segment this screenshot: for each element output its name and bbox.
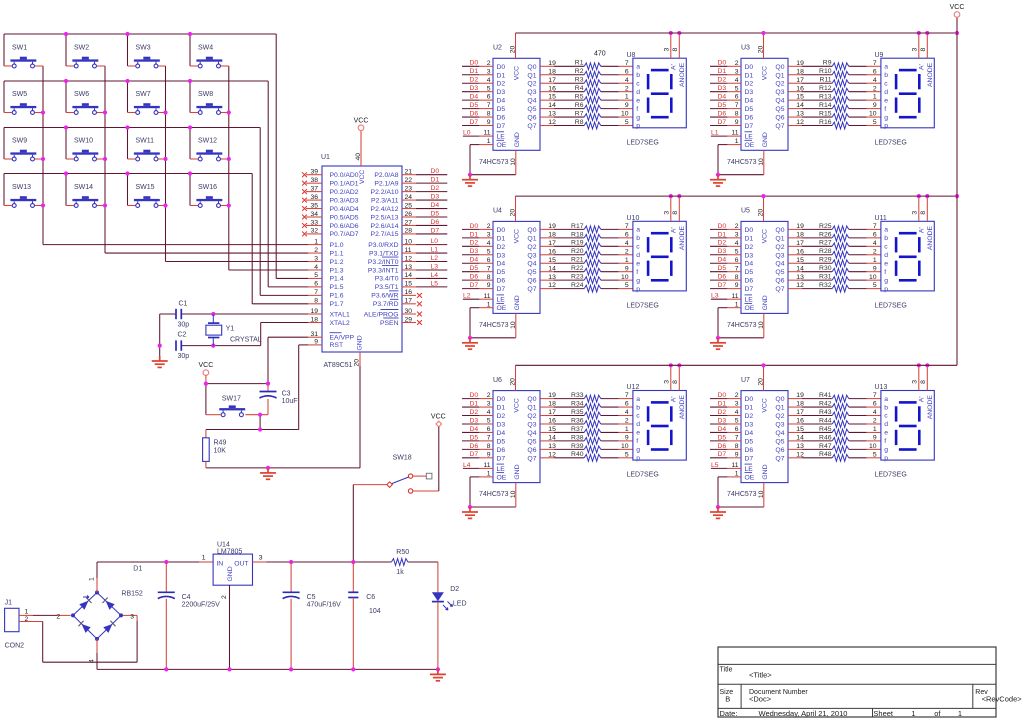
svg-text:32: 32	[310, 228, 318, 235]
svg-text:R43: R43	[819, 409, 832, 416]
svg-text:3: 3	[735, 68, 739, 75]
wire bridge minus to ground rail	[96, 639, 98, 670]
resistor R8	[540, 119, 633, 129]
svg-text:2: 2	[735, 392, 739, 399]
svg-text:c: c	[636, 244, 640, 251]
svg-text:e: e	[636, 430, 640, 437]
svg-text:Q7: Q7	[527, 123, 536, 130]
svg-text:C6: C6	[366, 594, 375, 601]
ground symbol below R49 rail	[260, 468, 276, 479]
svg-text:3: 3	[912, 48, 919, 52]
svg-text:P0.3/AD3: P0.3/AD3	[330, 197, 359, 204]
svg-text:D3: D3	[718, 248, 727, 255]
wire SW17 pins net	[206, 399, 268, 430]
svg-text:5: 5	[625, 119, 629, 126]
svg-text:D2: D2	[718, 77, 727, 84]
svg-text:2: 2	[735, 223, 739, 230]
svg-text:15: 15	[796, 426, 804, 433]
svg-text:g: g	[884, 114, 888, 121]
svg-text:Q6: Q6	[527, 447, 536, 454]
pushbutton SW9	[10, 138, 36, 161]
svg-text:C1: C1	[179, 301, 188, 308]
svg-text:R11: R11	[820, 77, 832, 84]
svg-text:39: 39	[310, 169, 318, 176]
svg-text:D4: D4	[470, 426, 479, 433]
svg-text:Q5: Q5	[527, 106, 536, 113]
svg-text:U12: U12	[627, 384, 640, 391]
svg-text:p: p	[884, 123, 888, 130]
svg-text:P1.0: P1.0	[330, 242, 344, 249]
svg-text:17: 17	[548, 409, 556, 416]
svg-text:<Title>: <Title>	[749, 670, 772, 679]
wire OE of U7 to ground	[716, 471, 764, 510]
svg-text:e: e	[884, 260, 888, 267]
svg-text:Q0: Q0	[527, 396, 536, 403]
svg-text:VCC: VCC	[514, 398, 521, 412]
ground symbol below U4	[462, 338, 478, 349]
title block frame	[718, 647, 996, 717]
svg-text:10: 10	[621, 111, 629, 118]
svg-text:R30: R30	[819, 265, 832, 272]
svg-text:Q6: Q6	[527, 278, 536, 285]
resistor network value 470	[594, 51, 606, 58]
svg-text:2: 2	[221, 595, 228, 599]
resistor R24	[540, 282, 633, 292]
svg-text:18: 18	[796, 68, 804, 75]
diode bridge D1 RB152	[56, 566, 143, 664]
svg-text:11: 11	[405, 247, 412, 254]
ground symbol power supply	[430, 669, 446, 680]
svg-text:U6: U6	[493, 377, 502, 384]
svg-text:D0: D0	[718, 60, 727, 67]
svg-text:19: 19	[548, 392, 556, 399]
svg-text:1: 1	[625, 426, 629, 433]
svg-text:5: 5	[487, 418, 491, 425]
wire VCC main vertical right side	[956, 17, 958, 365]
wire U14 GND pin2 to ground rail	[229, 585, 231, 669]
svg-text:27: 27	[405, 219, 413, 226]
svg-text:Q5: Q5	[775, 106, 784, 113]
pushbutton SW8	[196, 91, 222, 114]
svg-text:Q2: Q2	[775, 81, 784, 88]
svg-text:L0: L0	[463, 130, 471, 137]
pushbutton SW2	[72, 45, 98, 68]
pushbutton SW5	[10, 91, 36, 114]
svg-text:SW10: SW10	[74, 138, 93, 145]
svg-text:SW6: SW6	[74, 91, 89, 98]
wire U9 anode pins 3 8 to VCC rail	[912, 31, 930, 58]
svg-text:c: c	[884, 244, 888, 251]
7-segment display U13 LED7SEG	[875, 384, 935, 479]
svg-text:R21: R21	[571, 257, 584, 264]
svg-text:4: 4	[487, 77, 491, 84]
svg-text:P0.2/AD2: P0.2/AD2	[330, 189, 359, 196]
svg-text:8: 8	[920, 380, 927, 384]
svg-text:g: g	[636, 447, 640, 454]
svg-text:b: b	[884, 404, 888, 411]
svg-text:P2.2/A10: P2.2/A10	[371, 189, 399, 196]
svg-text:8: 8	[672, 380, 679, 384]
svg-text:1: 1	[625, 257, 629, 264]
resistor R21	[540, 257, 633, 267]
resistor R10	[788, 68, 881, 78]
resistor R36	[540, 417, 633, 427]
svg-text:R22: R22	[571, 265, 584, 272]
svg-text:R20: R20	[571, 248, 584, 255]
svg-text:VCC: VCC	[354, 117, 369, 124]
svg-text:D3: D3	[470, 248, 479, 255]
capacitor C2 30p	[176, 332, 189, 361]
svg-text:D3: D3	[745, 252, 754, 259]
svg-text:LE: LE	[745, 297, 754, 304]
svg-text:10: 10	[869, 443, 877, 450]
svg-text:R29: R29	[819, 257, 832, 264]
svg-text:Q0: Q0	[527, 64, 536, 71]
svg-text:Q1: Q1	[527, 235, 536, 242]
svg-text:74HC573: 74HC573	[727, 491, 757, 498]
resistor R23	[540, 274, 633, 284]
svg-text:SW12: SW12	[198, 138, 217, 145]
svg-text:D7: D7	[718, 451, 727, 458]
svg-text:D5: D5	[745, 438, 754, 445]
svg-text:2: 2	[56, 614, 60, 621]
wire LE input of U4 label L2	[463, 293, 493, 300]
svg-text:LED7SEG: LED7SEG	[875, 302, 907, 309]
svg-text:AT89C51: AT89C51	[324, 362, 353, 369]
svg-text:OE: OE	[745, 474, 755, 481]
pushbutton SW3	[134, 45, 160, 68]
svg-text:D2: D2	[745, 81, 754, 88]
svg-text:LE: LE	[497, 134, 506, 141]
svg-text:R24: R24	[571, 282, 584, 289]
resistor R11	[788, 77, 881, 87]
resistor R26	[788, 231, 881, 241]
svg-text:L2: L2	[463, 293, 471, 300]
svg-text:P1.7: P1.7	[330, 301, 344, 308]
svg-text:19: 19	[548, 60, 556, 67]
svg-text:GND: GND	[762, 295, 769, 310]
svg-text:4: 4	[735, 409, 739, 416]
svg-text:D7: D7	[497, 286, 506, 293]
svg-text:D5: D5	[718, 102, 727, 109]
resistor R4	[540, 85, 633, 95]
no-connect X marks on U1 P3.6 P3.7 ALE PSEN	[417, 293, 422, 325]
wire D0-D7 input wires of U3 with labels	[710, 60, 741, 126]
svg-text:12: 12	[548, 282, 556, 289]
pushbutton SW6	[72, 91, 98, 114]
svg-text:b: b	[636, 72, 640, 79]
svg-text:Q4: Q4	[527, 98, 536, 105]
svg-text:D1: D1	[718, 231, 727, 238]
svg-text:D0: D0	[497, 227, 506, 234]
svg-text:1: 1	[873, 94, 877, 101]
svg-text:13: 13	[548, 274, 556, 281]
resistor R20	[540, 248, 633, 258]
svg-text:15: 15	[548, 426, 556, 433]
svg-text:OE: OE	[497, 474, 507, 481]
svg-text:6: 6	[625, 68, 629, 75]
svg-text:D1: D1	[497, 405, 506, 412]
svg-text:Q3: Q3	[527, 89, 536, 96]
svg-text:D7: D7	[718, 282, 727, 289]
svg-text:D3: D3	[745, 421, 754, 428]
ground symbol below U2	[462, 175, 478, 186]
svg-text:R36: R36	[571, 417, 584, 424]
svg-text:g: g	[884, 277, 888, 284]
svg-text:2: 2	[25, 616, 29, 623]
svg-text:Q1: Q1	[775, 405, 784, 412]
svg-text:Q3: Q3	[775, 252, 784, 259]
svg-text:3: 3	[314, 255, 318, 262]
svg-text:P3.2/INT0: P3.2/INT0	[368, 259, 399, 266]
svg-text:4: 4	[625, 240, 629, 247]
svg-text:D1: D1	[718, 68, 727, 75]
svg-text:26: 26	[405, 211, 413, 218]
svg-text:VCC: VCC	[359, 170, 366, 184]
svg-text:Q2: Q2	[775, 413, 784, 420]
wire J1 pin1 to bridge AC left	[19, 614, 71, 616]
svg-text:g: g	[636, 277, 640, 284]
svg-text:Q0: Q0	[527, 227, 536, 234]
svg-text:R47: R47	[819, 443, 832, 450]
svg-text:1: 1	[735, 301, 739, 308]
7-segment display U11 LED7SEG	[875, 215, 935, 310]
svg-text:14: 14	[405, 272, 413, 279]
svg-text:ALE/PROG: ALE/PROG	[364, 311, 399, 318]
svg-text:19: 19	[310, 308, 318, 315]
wire SW18 common to 7805 OUT rail	[353, 485, 387, 562]
svg-text:74HC573: 74HC573	[479, 322, 509, 329]
svg-text:D3: D3	[431, 194, 440, 201]
svg-text:10: 10	[869, 274, 877, 281]
svg-text:21: 21	[405, 169, 413, 176]
svg-text:VCC: VCC	[762, 229, 769, 243]
svg-text:6: 6	[735, 94, 739, 101]
svg-text:Wednesday, April 21, 2010: Wednesday, April 21, 2010	[759, 709, 848, 718]
svg-text:R35: R35	[571, 409, 584, 416]
svg-text:14: 14	[796, 102, 804, 109]
7-segment display U8 LED7SEG	[627, 52, 687, 147]
svg-text:17: 17	[548, 77, 556, 84]
svg-text:23: 23	[405, 185, 413, 192]
svg-text:P3.4/T0: P3.4/T0	[375, 276, 399, 283]
svg-text:1: 1	[89, 577, 96, 581]
svg-text:18: 18	[796, 401, 804, 408]
svg-text:3: 3	[664, 380, 671, 384]
resistor R27	[788, 240, 881, 250]
svg-text:8: 8	[314, 298, 318, 305]
svg-text:15: 15	[796, 257, 804, 264]
svg-text:Q1: Q1	[775, 235, 784, 242]
svg-text:P2.1/A9: P2.1/A9	[374, 180, 398, 187]
svg-text:XTAL1: XTAL1	[330, 311, 350, 318]
svg-text:P3.6/WR: P3.6/WR	[371, 293, 398, 300]
svg-text:D2: D2	[470, 240, 479, 247]
svg-text:8: 8	[920, 48, 927, 52]
svg-text:p: p	[884, 455, 888, 462]
wire D0-D7 input wires of U5 with labels	[710, 223, 741, 289]
svg-text:19: 19	[548, 223, 556, 230]
svg-text:e: e	[884, 97, 888, 104]
svg-text:VCC: VCC	[514, 66, 521, 80]
svg-text:Q2: Q2	[775, 244, 784, 251]
wire U8 anode pins 3 8 to VCC rail	[664, 31, 682, 58]
pushbutton SW14	[72, 184, 98, 207]
power symbol VCC above U1	[354, 117, 369, 130]
svg-text:GND: GND	[762, 132, 769, 147]
svg-text:C3: C3	[282, 390, 291, 397]
svg-text:b: b	[884, 235, 888, 242]
svg-text:2: 2	[314, 247, 318, 254]
svg-text:5: 5	[735, 418, 739, 425]
svg-text:D6: D6	[745, 115, 754, 122]
resistor R28	[788, 248, 881, 258]
svg-text:D1: D1	[133, 566, 142, 573]
svg-text:L1: L1	[431, 247, 439, 254]
svg-text:9: 9	[314, 339, 318, 346]
svg-text:R34: R34	[571, 400, 584, 407]
svg-text:U11: U11	[875, 215, 887, 222]
resistor R1	[540, 60, 633, 70]
svg-text:R31: R31	[819, 274, 832, 281]
svg-text:3: 3	[912, 211, 919, 215]
svg-text:ANODE: ANODE	[927, 225, 934, 250]
svg-text:4: 4	[487, 409, 491, 416]
svg-text:8: 8	[735, 443, 739, 450]
svg-text:D3: D3	[718, 85, 727, 92]
svg-text:18: 18	[548, 401, 556, 408]
svg-text:9: 9	[625, 102, 629, 109]
svg-text:R13: R13	[819, 94, 832, 101]
svg-text:D5: D5	[718, 265, 727, 272]
svg-text:ANODE: ANODE	[679, 395, 686, 420]
svg-text:Q5: Q5	[775, 269, 784, 276]
svg-text:18: 18	[548, 231, 556, 238]
LED D2	[432, 586, 467, 610]
svg-text:U10: U10	[627, 215, 640, 222]
svg-text:SW1: SW1	[12, 45, 27, 52]
svg-text:12: 12	[548, 119, 556, 126]
svg-text:19: 19	[796, 392, 804, 399]
resistor R29	[788, 257, 881, 267]
svg-text:4: 4	[487, 240, 491, 247]
wire row3 rail net (SW9-SW12 left pins to P1.6)	[4, 125, 308, 295]
svg-text:Q7: Q7	[775, 123, 784, 130]
svg-text:R7: R7	[575, 110, 584, 117]
7-segment display U10 LED7SEG	[627, 215, 687, 310]
wire D0-D7 input wires of U7 with labels	[710, 392, 741, 458]
svg-text:D5: D5	[718, 434, 727, 441]
svg-text:LE: LE	[497, 297, 506, 304]
svg-text:Q2: Q2	[527, 413, 536, 420]
svg-text:D4: D4	[497, 430, 506, 437]
svg-text:11: 11	[731, 462, 738, 469]
svg-text:6: 6	[873, 68, 877, 75]
svg-text:D6: D6	[431, 219, 440, 226]
svg-text:OE: OE	[497, 305, 507, 312]
svg-text:D4: D4	[431, 202, 440, 209]
svg-text:D7: D7	[745, 123, 754, 130]
svg-text:SW5: SW5	[12, 91, 27, 98]
resistor R3	[540, 77, 633, 87]
svg-text:D6: D6	[497, 115, 506, 122]
wire bridge plus to 7805 IN rail	[97, 560, 213, 593]
resistor R34	[540, 400, 633, 410]
svg-text:Q4: Q4	[775, 430, 784, 437]
svg-text:9: 9	[735, 451, 739, 458]
svg-text:2: 2	[487, 392, 491, 399]
svg-text:P3.0/RXD: P3.0/RXD	[368, 242, 398, 249]
svg-text:R15: R15	[819, 110, 832, 117]
svg-text:2: 2	[873, 85, 877, 92]
svg-text:9: 9	[873, 102, 877, 109]
svg-text:7: 7	[487, 265, 491, 272]
svg-text:D7: D7	[745, 455, 754, 462]
wire U12 anode pins 3 8 to VCC rail	[664, 363, 682, 390]
svg-text:13: 13	[405, 264, 413, 271]
svg-text:U7: U7	[741, 377, 750, 384]
svg-text:Q7: Q7	[775, 455, 784, 462]
svg-text:SW16: SW16	[198, 184, 217, 191]
svg-text:XTAL2: XTAL2	[330, 320, 350, 327]
resistor R42	[788, 400, 881, 410]
wire OE of U4 to ground	[468, 301, 516, 340]
resistor R40	[540, 451, 633, 461]
svg-text:15: 15	[548, 94, 556, 101]
svg-text:b: b	[636, 404, 640, 411]
svg-text:LED7SEG: LED7SEG	[627, 472, 659, 479]
svg-text:f: f	[884, 438, 886, 445]
svg-text:D2: D2	[745, 244, 754, 251]
svg-text:14: 14	[796, 265, 804, 272]
svg-text:e: e	[636, 97, 640, 104]
pushbutton SW7	[134, 91, 160, 114]
svg-text:38: 38	[310, 177, 318, 184]
svg-text:37: 37	[310, 185, 318, 192]
svg-text:Q5: Q5	[775, 438, 784, 445]
wire VCC rail row2	[516, 194, 960, 198]
svg-text:13: 13	[548, 111, 556, 118]
svg-text:D4: D4	[497, 98, 506, 105]
svg-text:VCC: VCC	[199, 362, 214, 369]
wire row1 rail net (SW1-SW4 left pins to P1.4)	[4, 32, 308, 279]
svg-text:LE: LE	[745, 134, 754, 141]
svg-text:2: 2	[487, 60, 491, 67]
svg-text:D5: D5	[745, 269, 754, 276]
svg-text:A': A'	[670, 64, 677, 70]
svg-text:R25: R25	[819, 223, 832, 230]
svg-text:P2.0/A8: P2.0/A8	[374, 172, 398, 179]
svg-text:D4: D4	[745, 98, 754, 105]
svg-text:2: 2	[873, 248, 877, 255]
svg-text:OUT: OUT	[234, 560, 248, 567]
svg-text:1: 1	[873, 426, 877, 433]
svg-text:R42: R42	[819, 400, 832, 407]
svg-text:D7: D7	[431, 227, 440, 234]
resistor R25	[788, 223, 881, 233]
connector J1 CON2	[5, 600, 29, 650]
svg-text:9: 9	[873, 435, 877, 442]
resistor R37	[540, 426, 633, 436]
wire LED cathode to ground rail	[437, 602, 439, 670]
capacitor C3 10uF electrolytic	[260, 390, 298, 405]
svg-text:D5: D5	[497, 438, 506, 445]
svg-text:9: 9	[625, 435, 629, 442]
svg-text:LED7SEG: LED7SEG	[875, 472, 907, 479]
svg-text:LED7SEG: LED7SEG	[875, 139, 907, 146]
svg-text:GND: GND	[514, 132, 521, 147]
svg-text:P3.5/T1: P3.5/T1	[375, 284, 399, 291]
